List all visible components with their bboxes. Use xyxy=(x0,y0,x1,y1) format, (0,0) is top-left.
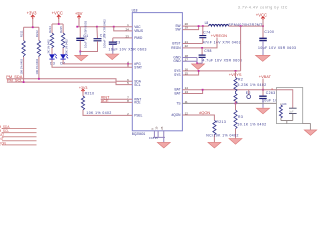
svg-text:L8: L8 xyxy=(205,21,209,25)
svg-text:10uF 10V X5R 0603: 10uF 10V X5R 0603 xyxy=(109,47,147,51)
svg-text:QON: QON xyxy=(0,141,6,145)
wire pack to ground xyxy=(303,124,311,130)
ground (R3) xyxy=(229,139,242,145)
svg-text:10uF 10V X5R 0603: 10uF 10V X5R 0603 xyxy=(258,46,296,50)
svg-text:BQ25601: BQ25601 xyxy=(132,132,146,136)
svg-text:BAT: BAT xyxy=(175,91,181,95)
svg-text:PMID: PMID xyxy=(134,36,143,40)
thermistor in pack xyxy=(279,103,287,120)
capacitor C74 (bootstrap) xyxy=(199,26,241,44)
svg-text:R213: R213 xyxy=(216,120,226,124)
svg-text:+3V3: +3V3 xyxy=(27,11,38,16)
svg-text:3.7V-4.4V config by I2C: 3.7V-4.4V config by I2C xyxy=(238,5,288,9)
testpoint E2 xyxy=(246,90,251,99)
svg-text:+5V: +5V xyxy=(75,11,83,16)
svg-text:C98: C98 xyxy=(204,49,212,53)
resistor R2 (5.23K SYS to TS) xyxy=(234,71,267,104)
svg-text:R211: R211 xyxy=(20,30,24,37)
resistor R214 xyxy=(46,24,53,54)
svg-text:47nF 16V X7R 0402: 47nF 16V X7R 0402 xyxy=(203,40,241,44)
LED D3 xyxy=(49,48,132,67)
ground (C3) xyxy=(106,54,119,60)
svg-text:R2: R2 xyxy=(238,77,243,81)
ground (C98/GND) xyxy=(192,64,205,70)
node junction xyxy=(58,23,60,25)
ground (C100) xyxy=(256,55,271,61)
ground (C263) xyxy=(256,108,269,114)
wire BTST pin21 xyxy=(182,43,202,45)
resistor R213 xyxy=(206,120,239,142)
power +VCC (LED pair) xyxy=(58,18,60,24)
svg-text:+VBAT: +VBAT xyxy=(259,74,272,79)
capacitor C1 xyxy=(76,20,88,51)
svg-text:TS: TS xyxy=(176,101,180,105)
wire VBUS jog xyxy=(114,27,133,31)
svg-text:NC/10K 1% 0402: NC/10K 1% 0402 xyxy=(206,134,239,138)
svg-text:D3: D3 xyxy=(50,61,55,65)
svg-text:R3: R3 xyxy=(238,115,243,119)
node junction xyxy=(76,26,78,28)
ground (R213) xyxy=(208,142,221,148)
svg-text:SCL: SCL xyxy=(134,83,140,87)
svg-text:R215: R215 xyxy=(59,26,63,33)
capacitor C2 xyxy=(80,19,106,52)
capacitor C3 xyxy=(109,38,147,54)
svg-text:10uF 10V X5R 0603: 10uF 10V X5R 0603 xyxy=(84,20,88,48)
wire REGN pin22 to +VREGN xyxy=(182,38,217,48)
svg-text:2K 1% 0402: 2K 1% 0402 xyxy=(65,39,69,54)
wire PMID xyxy=(113,37,133,39)
capacitor C100 xyxy=(258,26,296,55)
svg-text:C3: C3 xyxy=(115,40,120,44)
resistor R215 xyxy=(59,24,68,54)
pin numbers U18 xyxy=(125,22,188,116)
svg-text:#QON: #QON xyxy=(171,113,181,117)
battery pack box xyxy=(277,88,303,124)
svg-text:C100: C100 xyxy=(264,30,274,34)
wire L to +VCC node xyxy=(229,25,263,27)
ground (C1/C2) xyxy=(75,52,88,61)
resistor R3 (30.1K TS to GND) xyxy=(234,103,267,138)
svg-text:U18: U18 xyxy=(132,9,138,13)
pin names U18 xyxy=(134,24,181,118)
wire PM_SCL xyxy=(7,82,132,85)
wire GND pins 18/17 xyxy=(182,58,202,64)
power +3V3 (left resistor pair) xyxy=(32,18,34,27)
junction near pin 4 xyxy=(127,63,129,65)
wire T-bar VCC xyxy=(52,23,63,25)
wire VAC/VBUS input xyxy=(76,26,132,28)
svg-text:STAT: STAT xyxy=(134,66,142,70)
svg-text:SYS: SYS xyxy=(174,73,180,77)
svg-text:R214: R214 xyxy=(48,26,52,33)
svg-text:+VCC: +VCC xyxy=(256,12,267,17)
wire PM_SDA xyxy=(6,79,132,82)
svg-text:E2: E2 xyxy=(246,91,251,95)
wire T-bar 3V3 xyxy=(24,26,39,28)
resistor R212 xyxy=(35,27,41,79)
svg-text:4.7uF 16V X5R 0603: 4.7uF 16V X5R 0603 xyxy=(203,58,243,62)
ground (pack) xyxy=(304,130,317,136)
wire TS pin11 xyxy=(182,102,281,104)
LED D4 xyxy=(60,48,132,65)
bottom-left net stubs xyxy=(2,129,37,145)
resistor R210 xyxy=(81,92,132,116)
wire SW pins pair xyxy=(182,26,208,30)
inductor L8 xyxy=(205,21,263,27)
capacitor C98 xyxy=(199,48,243,63)
pack bottom join wire xyxy=(281,121,293,124)
svg-text:30.1K 1% 0402: 30.1K 1% 0402 xyxy=(238,122,267,126)
capacitor C263 xyxy=(259,90,300,108)
node junction xyxy=(32,26,34,28)
svg-text:2K 1% 0402: 2K 1% 0402 xyxy=(46,39,50,54)
svg-text:GND: GND xyxy=(173,59,181,63)
svg-text:VBUS: VBUS xyxy=(134,29,143,33)
wire BAT pins 14/13 xyxy=(182,90,276,94)
svg-text:PSEL: PSEL xyxy=(134,114,142,118)
pack capacitor xyxy=(277,90,297,121)
svg-text:10K 1% 0402: 10K 1% 0402 xyxy=(86,111,111,115)
svg-text:+VCC: +VCC xyxy=(52,11,63,16)
power +5V xyxy=(78,19,80,27)
ground (chip) xyxy=(157,142,170,148)
resistor R211 xyxy=(20,27,26,82)
svg-text:+VREGN: +VREGN xyxy=(211,33,227,38)
svg-text:100nF 16V X7R 0402: 100nF 16V X7R 0402 xyxy=(102,19,106,48)
IC U18 BQ25601 charger xyxy=(132,9,183,137)
chip bottom GND stubs pins 9/10/25 xyxy=(149,126,165,142)
svg-text:1uF: 1uF xyxy=(289,111,294,114)
svg-text:R210: R210 xyxy=(85,92,95,96)
svg-text:9 10 25: 9 10 25 xyxy=(149,136,158,140)
svg-text:5.23K 1% 0402: 5.23K 1% 0402 xyxy=(238,83,267,87)
svg-text:R212: R212 xyxy=(35,30,39,37)
svg-text:C74: C74 xyxy=(203,30,211,34)
svg-text:10K: 10K xyxy=(282,103,287,106)
svg-text:SW: SW xyxy=(175,28,180,32)
wire SYS pins 16/15 xyxy=(182,71,240,75)
svg-text:#QON: #QON xyxy=(199,110,210,115)
svg-text:C263: C263 xyxy=(266,91,276,95)
svg-text:REGN: REGN xyxy=(171,46,181,50)
wire SYS riser to L output xyxy=(240,26,242,71)
svg-text:#CE: #CE xyxy=(134,101,140,105)
